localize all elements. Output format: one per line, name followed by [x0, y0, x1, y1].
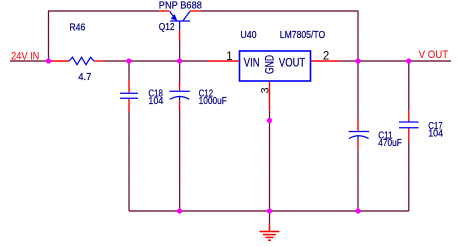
svg-text:3: 3 [259, 87, 271, 93]
svg-text:2: 2 [323, 50, 329, 62]
svg-text:R46: R46 [69, 21, 85, 33]
svg-text:470uF: 470uF [378, 137, 402, 149]
svg-text:24V IN: 24V IN [11, 51, 39, 63]
svg-text:1: 1 [226, 51, 232, 63]
svg-text:VIN: VIN [244, 55, 260, 69]
svg-text:104: 104 [148, 95, 163, 107]
svg-text:U40: U40 [240, 29, 256, 41]
svg-text:PNP B688: PNP B688 [159, 0, 202, 12]
svg-text:104: 104 [428, 128, 443, 140]
svg-text:Q12: Q12 [159, 21, 175, 33]
svg-text:1000uF: 1000uF [199, 95, 227, 107]
svg-text:GND: GND [263, 55, 277, 74]
svg-text:4.7: 4.7 [78, 71, 91, 83]
svg-text:VOUT: VOUT [279, 55, 306, 69]
svg-text:V OUT: V OUT [419, 49, 449, 61]
svg-text:LM7805/TO: LM7805/TO [280, 29, 325, 41]
